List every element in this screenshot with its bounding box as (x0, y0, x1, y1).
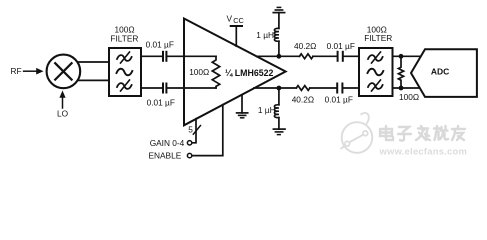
filter FL2 box (359, 48, 393, 96)
wire filter2 to ADC top (393, 55, 421, 57)
junction top bias (277, 54, 282, 59)
resistor R4 100Ω (ADC termination) (398, 56, 403, 88)
filter FL1 symbol bottom tilde crossed (117, 83, 132, 89)
svg-text:1 µH: 1 µH (256, 30, 274, 40)
mixer X1 cross (55, 63, 71, 79)
wire C3 to filter2 (344, 55, 359, 57)
mixer X1 circle (47, 55, 81, 89)
wire ENABLE (192, 105, 223, 156)
capacitor C1 0.01 µF (top) (162, 52, 164, 61)
terminal GAIN 0-4 (187, 141, 191, 145)
svg-text:ADC: ADC (431, 67, 449, 77)
arrowhead LO (59, 91, 65, 98)
svg-text:ENABLE: ENABLE (149, 150, 182, 160)
wire amp input bottom inner (184, 87, 216, 89)
svg-text:1 µH: 1 µH (258, 105, 276, 115)
label 100Ω FILTER (left) (110, 24, 138, 43)
wire L1 to ground (278, 13, 280, 29)
junction bottom bias (277, 86, 282, 91)
svg-text:40.2Ω: 40.2Ω (294, 41, 316, 51)
wire C2 to amp (168, 87, 185, 89)
watermark url www.elecfans.com (faint) (379, 146, 468, 157)
wire C1 to amp (168, 55, 185, 57)
junction ADC bottom (399, 86, 404, 91)
svg-text:0.01 µF: 0.01 µF (327, 41, 355, 51)
wire LO input (62, 98, 64, 108)
resistor R1 100Ω (input termination) (212, 56, 219, 88)
wire GAIN bus (192, 119, 196, 143)
ground amp (241, 95, 243, 113)
svg-text:CC: CC (233, 16, 244, 25)
node RF label (11, 66, 22, 76)
wire RF input (24, 70, 37, 72)
wire mixer to filter top (78, 61, 109, 63)
label ¼ LMH6522 (225, 68, 274, 78)
svg-text:FILTER: FILTER (110, 34, 138, 44)
svg-text:RF: RF (11, 66, 22, 76)
filter FL2 symbol bottom tilde crossed (368, 83, 383, 89)
svg-text:100Ω: 100Ω (399, 92, 419, 102)
wire R2 to C3 (313, 55, 337, 57)
ADC block (411, 49, 477, 97)
node LO label (57, 109, 69, 119)
power VCC bar (231, 25, 242, 27)
inductor L1 1 µH (top) (274, 28, 279, 41)
ground top (inverted) (273, 12, 284, 14)
power VCC label (227, 14, 245, 26)
label 100Ω FILTER (right) (364, 24, 392, 43)
op-amp U1 triangle (184, 19, 286, 126)
wire amp output top (257, 55, 300, 57)
ground bottom (273, 128, 285, 130)
svg-text:LO: LO (57, 109, 69, 119)
wire filter2 to ADC bottom (393, 87, 421, 89)
svg-text:0.01 µF: 0.01 µF (147, 97, 175, 107)
watermark logo (faint) (341, 113, 373, 153)
wire filter1 to C2 (141, 87, 162, 89)
junction ADC top (399, 54, 404, 59)
filter FL1 symbol top tilde crossed (117, 55, 132, 61)
wire R3 to C4 (310, 87, 336, 89)
wire VCC to amp (235, 26, 237, 46)
filter FL1 symbol middle tilde (117, 69, 133, 76)
wire top bias (278, 41, 280, 56)
svg-text:¼ LMH6522: ¼ LMH6522 (225, 68, 274, 78)
svg-text:FILTER: FILTER (364, 33, 392, 43)
resistor R3 40.2Ω (bottom) (296, 86, 310, 91)
wire C4 to filter2 (343, 87, 359, 89)
wire amp input top inner (184, 55, 216, 57)
bus slash 5 (193, 126, 200, 135)
svg-text:0.01 µF: 0.01 µF (325, 94, 353, 104)
filter FL2 symbol middle tilde (368, 69, 384, 76)
terminal ENABLE (187, 153, 191, 157)
capacitor C4 0.01 µF (bottom right) (336, 84, 338, 93)
svg-text:100Ω: 100Ω (189, 67, 209, 77)
wire L2 to ground (278, 118, 280, 130)
svg-text:V: V (227, 14, 233, 24)
wire bottom bias (278, 88, 280, 105)
capacitor C2 0.01 µF (bottom) (162, 84, 164, 93)
svg-text:GAIN 0-4: GAIN 0-4 (150, 138, 185, 148)
svg-text:40.2Ω: 40.2Ω (292, 94, 314, 104)
filter FL2 symbol top tilde crossed (368, 55, 383, 61)
inductor L2 1 µH (bottom) (274, 105, 279, 118)
resistor R2 40.2Ω (top) (300, 54, 314, 59)
wire mixer to filter bottom (78, 79, 109, 81)
capacitor C3 0.01 µF (top right) (337, 52, 339, 61)
svg-text:www.elecfans.com: www.elecfans.com (379, 146, 468, 157)
watermark text 电子发烧友 (faint) (380, 126, 465, 141)
arrowhead RF (36, 68, 43, 75)
wire amp output bottom (254, 87, 296, 89)
wire filter1 to C1 (141, 55, 162, 57)
svg-text:5: 5 (188, 125, 193, 135)
svg-text:0.01 µF: 0.01 µF (146, 40, 174, 50)
filter FL1 box (109, 48, 141, 96)
